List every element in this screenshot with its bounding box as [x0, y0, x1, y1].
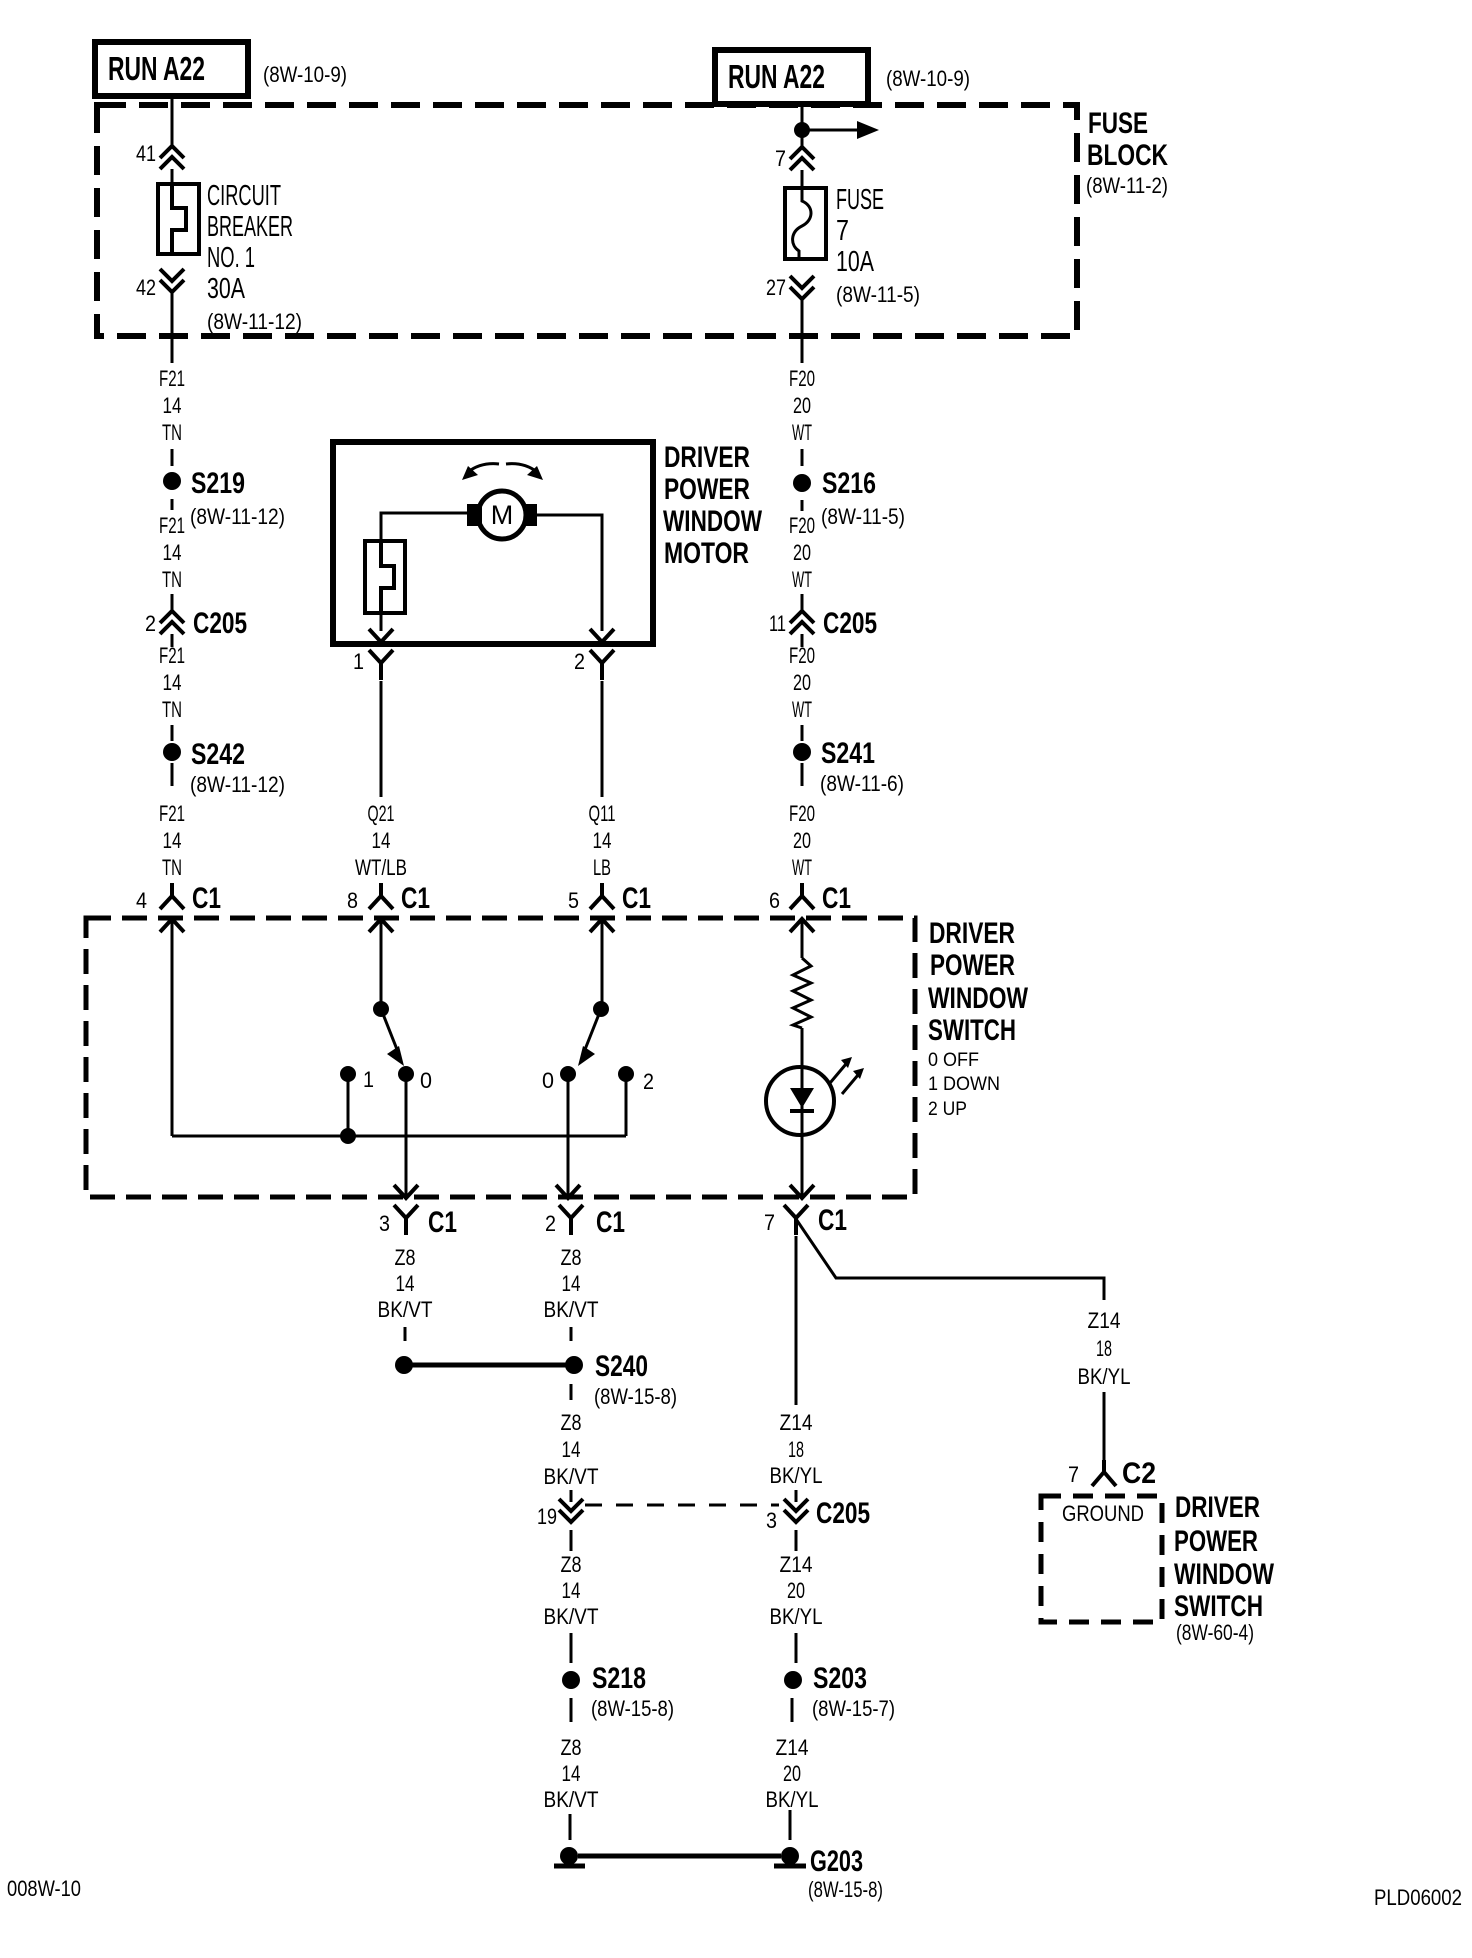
svg-text:WT: WT	[792, 697, 812, 722]
feed arrow to other circuits	[802, 121, 879, 139]
switch 1 pivot	[373, 1001, 389, 1017]
connector C1 pin 3 female	[379, 1205, 457, 1239]
svg-text:(8W-11-5): (8W-11-5)	[836, 282, 920, 307]
switch 2 contact 2	[618, 1066, 654, 1094]
switch 1 blade	[381, 1009, 404, 1066]
svg-text:M: M	[491, 500, 514, 530]
wire contact 0 down to pin 2	[567, 1074, 570, 1196]
svg-text:FUSE: FUSE	[1088, 107, 1148, 140]
connector C1 pin 2 female	[545, 1205, 625, 1239]
junction dot A22 feed	[794, 122, 810, 138]
svg-text:20: 20	[793, 828, 811, 853]
wire below S241	[801, 763, 804, 786]
wire pin 6 to resistor	[801, 921, 804, 958]
svg-text:19: 19	[537, 1504, 557, 1529]
wire above ground left	[569, 1814, 572, 1840]
dashed link pin 19 to pin 3 C205	[585, 1504, 779, 1507]
svg-text:14: 14	[163, 393, 182, 418]
svg-text:0: 0	[420, 1068, 432, 1093]
wire breaker to pin 1	[380, 613, 383, 631]
svg-text:Z14: Z14	[776, 1735, 809, 1760]
wire below C205 pin 11	[801, 634, 804, 647]
svg-text:Z8: Z8	[561, 1410, 582, 1435]
wire dash below S240	[570, 1384, 573, 1400]
svg-text:F21: F21	[159, 801, 185, 826]
svg-text:20: 20	[787, 1578, 805, 1603]
connector C1 pin 8 female	[347, 882, 430, 915]
wire label Q21 14 WT/LB	[355, 801, 407, 880]
connector C1 pin 8 male arrow	[369, 919, 393, 932]
connector C205 pin 11	[769, 607, 877, 640]
svg-text:NO. 1: NO. 1	[207, 242, 255, 274]
svg-text:S241: S241	[821, 737, 875, 770]
svg-text:0: 0	[542, 1068, 554, 1093]
svg-text:BK/YL: BK/YL	[766, 1787, 819, 1812]
svg-text:6: 6	[769, 888, 780, 913]
arrow pin 7 at box edge	[790, 1185, 814, 1198]
motor M	[467, 491, 537, 539]
driver power window switch dashed box	[86, 918, 915, 1197]
svg-text:C205: C205	[193, 607, 247, 640]
svg-text:SWITCH: SWITCH	[1174, 1590, 1263, 1623]
svg-text:S240: S240	[595, 1350, 648, 1383]
switch 1 contact 0	[398, 1066, 432, 1093]
power feed box RUN A22 (right)	[715, 50, 868, 104]
svg-text:14: 14	[562, 1437, 581, 1462]
svg-text:(8W-60-4): (8W-60-4)	[1176, 1620, 1254, 1645]
svg-text:FUSE: FUSE	[836, 184, 884, 216]
wire label F21 14 TN (3)	[159, 643, 185, 722]
driver power window motor box	[333, 442, 653, 644]
switch 1 contact 1	[340, 1066, 374, 1092]
svg-text:C1: C1	[192, 882, 221, 915]
svg-text:F20: F20	[789, 513, 815, 538]
svg-text:2: 2	[574, 649, 585, 674]
wire dash above S219	[171, 449, 174, 466]
svg-text:MOTOR: MOTOR	[664, 537, 749, 570]
svg-text:14: 14	[562, 1271, 581, 1296]
svg-text:(8W-15-8): (8W-15-8)	[591, 1696, 674, 1721]
svg-text:F20: F20	[789, 366, 815, 391]
connector C1 pin 5 female	[568, 882, 651, 915]
svg-text:8: 8	[347, 888, 358, 913]
wire 41 to breaker	[171, 169, 174, 184]
svg-text:(8W-15-7): (8W-15-7)	[812, 1696, 895, 1721]
wire above ground right	[789, 1810, 792, 1840]
svg-text:2: 2	[145, 611, 156, 636]
wire label F20 20 WT (1)	[789, 366, 815, 445]
splice S242	[163, 738, 285, 797]
wire above C205 pin 2	[171, 594, 174, 611]
svg-text:BK/VT: BK/VT	[378, 1297, 433, 1322]
wire label F21 14 TN (1)	[159, 366, 185, 445]
svg-text:10A: 10A	[836, 246, 874, 278]
ground G203 left terminal	[554, 1847, 585, 1866]
svg-text:F20: F20	[789, 643, 815, 668]
motor pin 2 connector	[574, 649, 614, 680]
svg-text:WT: WT	[792, 420, 812, 445]
fuse 7	[785, 188, 826, 259]
svg-text:41: 41	[136, 141, 156, 166]
svg-text:4: 4	[136, 888, 147, 913]
wire 7 to fuse	[801, 170, 804, 188]
svg-text:WINDOW: WINDOW	[1174, 1558, 1275, 1591]
svg-text:1: 1	[363, 1067, 374, 1092]
svg-text:14: 14	[372, 828, 391, 853]
wire above C205 pin 3	[795, 1490, 798, 1502]
connector C1 pin 4 female	[136, 882, 221, 915]
svg-text:7: 7	[1068, 1462, 1079, 1487]
LED light arrows	[830, 1057, 864, 1094]
connector C1 pin 7 female	[764, 1204, 847, 1237]
arrow pin 3 at box edge	[394, 1185, 418, 1198]
wire dash below S216	[801, 500, 804, 511]
wire above C205 pin 19	[570, 1490, 573, 1502]
wire pin 4 into switch	[171, 921, 174, 1136]
wire motor pin 2 down	[601, 681, 604, 797]
svg-text:(8W-11-12): (8W-11-12)	[207, 309, 302, 334]
connector C2 pin 7 female	[1068, 1457, 1156, 1490]
wire label Z8 14 BK/VT (below S240)	[544, 1410, 599, 1489]
connector C1 pin 6 female	[769, 882, 851, 915]
arrow pin 2 at motor box	[590, 629, 614, 642]
ground bus wire	[578, 1854, 781, 1859]
connector pin 7 (fuse block)	[775, 146, 814, 171]
svg-text:(8W-11-5): (8W-11-5)	[821, 504, 905, 529]
svg-text:0 OFF: 0 OFF	[928, 1050, 979, 1071]
svg-text:27: 27	[766, 275, 786, 300]
arrow pin 1 at motor box	[369, 629, 393, 642]
svg-text:F21: F21	[159, 513, 185, 538]
svg-text:WT: WT	[792, 855, 812, 880]
svg-text:RUN A22: RUN A22	[728, 58, 825, 95]
connector C1 pin 5 male arrow	[590, 919, 614, 932]
svg-text:7: 7	[764, 1210, 775, 1235]
motor wire right to pin 2	[535, 515, 602, 631]
splice S203	[784, 1662, 895, 1721]
svg-text:DRIVER: DRIVER	[664, 441, 750, 474]
svg-text:14: 14	[163, 540, 182, 565]
svg-text:BK/VT: BK/VT	[544, 1604, 599, 1629]
svg-text:(8W-11-12): (8W-11-12)	[190, 504, 285, 529]
svg-text:BK/YL: BK/YL	[770, 1604, 823, 1629]
label DRIVER POWER WINDOW SWITCH	[928, 917, 1029, 1047]
wire label F20 20 WT (3)	[789, 643, 815, 722]
svg-text:(8W-10-9): (8W-10-9)	[263, 62, 347, 87]
svg-text:BK/VT: BK/VT	[544, 1464, 599, 1489]
wire label Q11 14 LB	[589, 801, 616, 880]
svg-text:POWER: POWER	[664, 473, 750, 506]
wire label Z14 18 BK/YL (pin7)	[770, 1410, 823, 1488]
svg-text:(8W-10-9): (8W-10-9)	[886, 66, 970, 91]
connector pin 27 (fuse block)	[766, 275, 814, 300]
wire 27 exit fuse block	[801, 300, 804, 363]
label DRIVER POWER WINDOW SWITCH (8W-60-4)	[1174, 1491, 1275, 1645]
svg-text:F21: F21	[159, 366, 185, 391]
svg-text:BK/VT: BK/VT	[544, 1297, 599, 1322]
svg-text:008W-10: 008W-10	[7, 1876, 81, 1901]
wire label Z8 14 BK/VT (lower)	[544, 1552, 599, 1629]
branch wire pin 7 to C2	[796, 1219, 1104, 1300]
svg-text:Q11: Q11	[589, 801, 616, 826]
wire dash above S240 right	[570, 1327, 573, 1341]
svg-text:Q21: Q21	[368, 801, 395, 826]
svg-text:20: 20	[783, 1761, 801, 1786]
wire label Z8 14 BK/VT (pin3)	[378, 1245, 433, 1322]
wire motor pin 1 down	[380, 681, 383, 797]
junction dot bus	[340, 1128, 356, 1144]
motor rotation arrow right	[506, 464, 543, 480]
label FUSE BLOCK (8W-11-2)	[1086, 107, 1168, 198]
wire below C205 pin 19	[570, 1530, 573, 1551]
wire label Z14 18 BK/YL (C2 branch)	[1078, 1308, 1131, 1389]
wire above S218	[570, 1633, 573, 1663]
svg-text:(8W-11-6): (8W-11-6)	[820, 771, 904, 796]
svg-text:C1: C1	[622, 882, 651, 915]
svg-text:DRIVER: DRIVER	[1175, 1491, 1260, 1524]
svg-text:Z8: Z8	[395, 1245, 416, 1270]
svg-text:BLOCK: BLOCK	[1087, 139, 1168, 172]
splice S216	[793, 467, 905, 529]
svg-text:14: 14	[163, 670, 182, 695]
wire dash below S218	[570, 1698, 573, 1722]
svg-text:POWER: POWER	[1174, 1525, 1258, 1558]
svg-text:S242: S242	[191, 738, 245, 771]
svg-text:S218: S218	[592, 1662, 646, 1695]
motor rotation arrow left	[462, 464, 499, 480]
svg-text:2: 2	[545, 1211, 556, 1236]
svg-text:14: 14	[593, 828, 612, 853]
motor pin 1 connector	[353, 649, 393, 680]
ground dashed box	[1041, 1496, 1162, 1622]
wire dash above S216	[801, 449, 804, 466]
label DRIVER POWER WINDOW MOTOR	[663, 441, 763, 570]
bus wire across switch	[172, 1135, 626, 1138]
wire pin 8 to switch pivot	[380, 921, 383, 1009]
fuse block dashed enclosure	[97, 105, 1077, 336]
svg-text:14: 14	[396, 1271, 415, 1296]
svg-text:20: 20	[793, 540, 811, 565]
svg-text:Z8: Z8	[561, 1245, 582, 1270]
svg-text:5: 5	[568, 888, 579, 913]
svg-text:20: 20	[793, 670, 811, 695]
svg-text:TN: TN	[162, 855, 182, 880]
svg-text:C2: C2	[1122, 1457, 1156, 1490]
wire dash above S241	[801, 725, 804, 741]
connector C1 pin 4 male arrow	[160, 919, 184, 932]
wire dash below S203	[791, 1698, 794, 1722]
wire label F20 20 WT (2)	[789, 513, 815, 592]
wire dash below S219	[171, 499, 174, 510]
svg-text:(8W-15-8): (8W-15-8)	[808, 1877, 883, 1902]
svg-text:(8W-15-8): (8W-15-8)	[594, 1384, 677, 1409]
wire dash above S242	[171, 725, 174, 741]
switch 2 pivot	[593, 1001, 609, 1017]
svg-text:14: 14	[562, 1578, 581, 1603]
wire contact 2 to bus	[625, 1074, 628, 1136]
wire label Z8 14 BK/VT (pin2)	[544, 1245, 599, 1322]
wire below S242	[171, 763, 174, 786]
svg-text:BK/YL: BK/YL	[1078, 1364, 1131, 1389]
svg-text:F21: F21	[159, 643, 185, 668]
connector C205 pin 19	[537, 1499, 583, 1529]
wire label F21 14 TN (4)	[159, 801, 185, 880]
connector C205 pin 3	[766, 1497, 870, 1533]
wire resistor to LED	[801, 1028, 804, 1068]
svg-text:GROUND: GROUND	[1062, 1501, 1144, 1526]
label FUSE 7 10A (8W-11-5)	[836, 184, 920, 307]
svg-text:42: 42	[136, 275, 156, 300]
svg-text:Z8: Z8	[561, 1735, 582, 1760]
svg-text:C1: C1	[818, 1204, 847, 1237]
svg-text:(8W-11-2): (8W-11-2)	[1086, 173, 1168, 198]
svg-text:C205: C205	[816, 1497, 870, 1530]
svg-text:LB: LB	[593, 855, 611, 880]
wire dash above S240 left	[404, 1327, 407, 1341]
wire below C205 pin 2	[171, 634, 174, 647]
svg-text:(8W-11-12): (8W-11-12)	[190, 772, 285, 797]
splice S240	[395, 1350, 677, 1409]
svg-text:14: 14	[163, 828, 182, 853]
label switch positions 0 OFF 1 DOWN 2 UP	[928, 1050, 1000, 1120]
wire 42 exit fuse block	[171, 293, 174, 363]
svg-text:7: 7	[836, 215, 849, 247]
svg-text:Z14: Z14	[780, 1552, 813, 1577]
svg-text:2 UP: 2 UP	[928, 1099, 967, 1120]
svg-text:CIRCUIT: CIRCUIT	[207, 180, 281, 212]
wire A22 left feed	[171, 96, 174, 146]
svg-text:WT: WT	[792, 567, 812, 592]
wire contact 1 to bus	[347, 1074, 350, 1136]
svg-text:Z14: Z14	[1088, 1308, 1121, 1333]
svg-text:S216: S216	[822, 467, 876, 500]
connector C205 pin 2	[145, 607, 247, 640]
wire above C205 pin 11	[801, 594, 804, 611]
arrow pin 2 at box edge	[556, 1185, 580, 1198]
svg-text:DRIVER: DRIVER	[929, 917, 1015, 950]
svg-text:RUN A22: RUN A22	[108, 50, 205, 87]
svg-text:C205: C205	[823, 607, 877, 640]
wire label F21 14 TN (2)	[159, 513, 185, 592]
LED indicator	[766, 1067, 834, 1196]
wire label Z14 20 BK/YL (last)	[766, 1735, 819, 1812]
svg-text:18: 18	[788, 1437, 804, 1462]
resistor	[793, 958, 811, 1028]
svg-text:C1: C1	[428, 1206, 457, 1239]
svg-text:TN: TN	[162, 420, 182, 445]
switch 2 contact 0	[542, 1066, 576, 1093]
svg-text:S203: S203	[813, 1662, 867, 1695]
wire A22 right feed	[801, 104, 804, 147]
splice S219	[163, 467, 285, 529]
power feed box RUN A22 (left)	[95, 42, 248, 96]
svg-text:14: 14	[562, 1761, 581, 1786]
svg-text:1: 1	[353, 649, 364, 674]
svg-text:BREAKER: BREAKER	[207, 211, 293, 243]
splice S241	[793, 737, 904, 796]
svg-text:WT/LB: WT/LB	[355, 855, 407, 880]
svg-text:2: 2	[643, 1069, 654, 1094]
svg-text:3: 3	[766, 1508, 777, 1533]
motor wire left to breaker	[381, 513, 468, 541]
wire below C205 pin 3	[795, 1530, 798, 1551]
svg-text:SWITCH: SWITCH	[928, 1014, 1016, 1047]
svg-text:Z8: Z8	[561, 1552, 582, 1577]
ground G203 right terminal	[774, 1847, 806, 1866]
label G203 (8W-15-8)	[808, 1845, 883, 1902]
switch 2 blade	[578, 1009, 601, 1066]
wire above S203	[795, 1633, 798, 1663]
wire label F20 20 WT (4)	[789, 801, 815, 880]
connector pin 41 (fuse block)	[136, 141, 184, 169]
wire above C2	[1103, 1392, 1106, 1460]
svg-text:C1: C1	[596, 1206, 625, 1239]
svg-text:18: 18	[1096, 1336, 1112, 1361]
wire label Z14 20 BK/YL (lower)	[770, 1552, 823, 1629]
svg-text:PLD06002: PLD06002	[1374, 1885, 1462, 1910]
svg-text:TN: TN	[162, 567, 182, 592]
wire contact 0 down to pin 3	[405, 1074, 408, 1196]
splice S218	[562, 1662, 674, 1721]
motor thermal breaker	[365, 541, 405, 613]
svg-text:7: 7	[775, 146, 786, 171]
svg-text:20: 20	[793, 393, 811, 418]
svg-text:C1: C1	[401, 882, 430, 915]
wire pin 5 to switch pivot	[601, 921, 604, 1009]
svg-text:C1: C1	[822, 882, 851, 915]
svg-text:WINDOW: WINDOW	[663, 505, 763, 538]
circuit breaker No. 1	[158, 184, 199, 254]
svg-text:POWER: POWER	[930, 949, 1015, 982]
svg-text:BK/YL: BK/YL	[770, 1463, 823, 1488]
svg-text:TN: TN	[162, 697, 182, 722]
svg-text:11: 11	[769, 611, 786, 636]
svg-text:BK/VT: BK/VT	[544, 1787, 599, 1812]
label CIRCUIT BREAKER NO. 1 30A (8W-11-12)	[207, 180, 302, 334]
svg-text:F20: F20	[789, 801, 815, 826]
wire label Z8 14 BK/VT (last)	[544, 1735, 599, 1812]
svg-text:1 DOWN: 1 DOWN	[928, 1074, 1000, 1095]
svg-text:30A: 30A	[207, 273, 245, 305]
svg-text:G203: G203	[810, 1845, 863, 1878]
connector C1 pin 6 male arrow	[790, 919, 814, 932]
svg-text:S219: S219	[191, 467, 245, 500]
connector pin 42 (fuse block)	[136, 269, 184, 300]
wire pin 7 down	[795, 1236, 798, 1405]
svg-text:3: 3	[379, 1211, 390, 1236]
svg-text:Z14: Z14	[780, 1410, 813, 1435]
svg-text:WINDOW: WINDOW	[928, 982, 1029, 1015]
